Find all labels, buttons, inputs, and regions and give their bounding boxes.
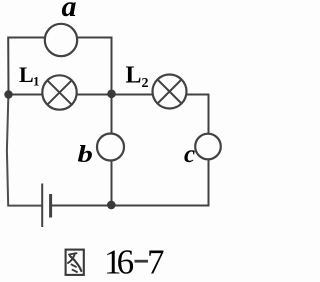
wire middle branch down through meter b [111, 94, 113, 205]
svg-text:b: b [78, 140, 93, 167]
svg-text:a: a [62, 0, 77, 23]
node junction middle bottom [107, 201, 116, 210]
lamp L1 [42, 75, 76, 109]
meter b [97, 134, 124, 161]
node junction left [4, 90, 12, 98]
svg-text:6: 6 [117, 243, 135, 282]
node junction middle top [107, 90, 116, 99]
svg-text:2: 2 [142, 76, 149, 91]
wire left branch: left vertical + top wire to middle vertical [8, 38, 111, 95]
svg-text:1: 1 [33, 74, 40, 89]
battery B1 short plate (-) [49, 194, 52, 218]
wire lamp row from left node through L1, L2 to right corner [9, 94, 209, 96]
wire bottom from right corner to battery short plate [51, 205, 209, 207]
lamp L2 [153, 75, 187, 109]
wire battery tall plate to bottom-left corner and up left side [7, 95, 42, 206]
meter c [195, 134, 221, 160]
svg-text:c: c [184, 141, 195, 168]
caption text 16-7 [104, 243, 165, 282]
battery B1 tall plate (+) [41, 184, 43, 228]
svg-text:L: L [19, 62, 34, 87]
svg-text:7: 7 [147, 243, 165, 282]
meter a [45, 24, 77, 56]
caption character tu (drawn) [66, 250, 84, 275]
wire right branch down through meter c [208, 95, 210, 206]
svg-text:L: L [126, 63, 142, 89]
